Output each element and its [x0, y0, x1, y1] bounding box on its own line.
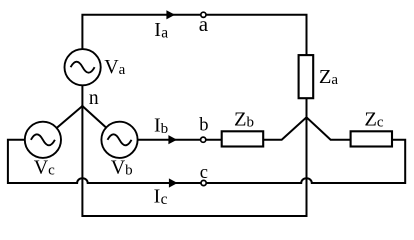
- svg-text:c: c: [200, 163, 208, 183]
- svg-text:b: b: [199, 116, 208, 136]
- svg-text:n: n: [89, 88, 99, 109]
- svg-text:a: a: [199, 12, 209, 36]
